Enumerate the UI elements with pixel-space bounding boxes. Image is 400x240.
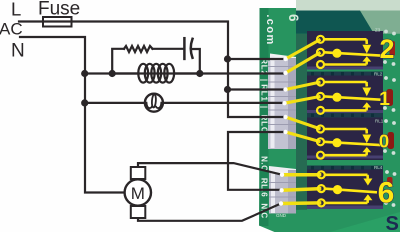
yellow wire T1-R1C1 [286,39,321,59]
pads R3 [384,119,388,123]
diode D1 [390,41,396,56]
junction N-motor branch node B [81,99,88,106]
terminal T4 [282,101,286,105]
PCB top dark band (relay tops in shadow) [296,11,374,34]
yellow wire T5-R3C1 [286,117,321,129]
relay R3 pin strip [307,113,383,118]
PCB pale washed top strip [296,0,400,11]
wire V1 dot1 to T1 [228,58,286,60]
junction RC network left node C [109,70,116,77]
resistor R branch riser [112,49,124,74]
top connector left highlight [271,56,275,148]
relay R4 pin strip [307,166,383,170]
bottom connector right shade [288,170,296,214]
terminal B2 [279,188,283,192]
bottom terminal connector body [269,173,296,214]
svg-text:|: | [259,106,268,108]
svg-text:2: 2 [379,34,394,64]
terminal T1 [283,57,287,61]
yellow wire T3-R2C1 [286,82,321,90]
diode D2 [387,89,394,106]
svg-text:SP: SP [386,213,400,232]
capacitor C1 right curved plate [191,39,193,58]
wire motor top to B1 [138,163,282,175]
svg-text:|: | [259,79,268,81]
terminal T3 [283,87,287,91]
wire resistor to capacitor [153,48,184,50]
relay switch symbol R2 [317,79,381,114]
lamp LP1 [145,94,163,112]
svg-text:6: 6 [286,14,301,22]
svg-text:1: 1 [379,88,390,110]
terminal B1 [280,173,284,177]
svg-text:RL2: RL2 [374,72,383,77]
tiny relay refs [374,72,384,171]
junction L-line branch node F [224,86,231,93]
yellow wire T6-R3C2 [286,132,321,142]
connector labels RL2 RL1 RLC [259,58,268,218]
diode D4 [387,177,393,187]
diode D3 [388,132,395,149]
svg-text:6: 6 [378,177,395,210]
svg-text:RL4: RL4 [374,165,383,170]
bottom connector cell lines [269,183,296,198]
top terminal connector white face [270,54,296,62]
yellow wire B1-R4C1 [282,173,321,177]
yellow wire B3-R4C3 [281,201,321,205]
capacitor C1 left plate [183,38,186,59]
wire capacitor to network node [193,49,200,74]
junction RC network right node D [196,70,203,77]
relay switch symbol R3 [317,126,381,159]
svg-text:RL1: RL1 [375,119,384,124]
yellow wire T4-R2C2 [285,96,321,103]
bottom terminal connector white face [269,166,296,174]
wire lamp row (N branch to PCB T4) [85,102,285,104]
svg-text:Fuse: Fuse [38,0,80,19]
top connector cell lines [268,67,296,125]
pads R4 [385,170,389,174]
svg-text:.com: .com [264,14,276,45]
relay switch symbol R4 [318,171,377,206]
svg-text:AC: AC [0,20,23,39]
svg-text:GND: GND [276,213,287,218]
wire T6 to B2 link [228,132,286,190]
svg-text:N: N [11,41,25,62]
wire fuse internal [43,20,72,22]
wire L to fuse [19,20,43,22]
shadow column left of relays [296,34,307,210]
bottom connector left highlight [271,168,275,213]
svg-text:M: M [131,184,145,203]
svg-text:L: L [11,0,21,20]
top connector right shade [288,58,296,149]
fuse F1 body [43,17,72,27]
PCB bottom-right brighter green [330,212,400,232]
terminal T5 [283,115,287,119]
PCB top-right sage area [360,11,400,34]
pads R2 [384,76,388,80]
right side diodes and pads [383,30,396,207]
terminal B3 [279,201,283,205]
resistor R1 zigzag [124,46,153,52]
inductor L1 coil [112,64,200,83]
terminal T6 [283,130,287,134]
relay R2 pin strip [307,72,383,77]
PCB label column shade [260,8,269,226]
PCB board base [259,0,400,232]
junction N-lamp branch node A [81,70,88,77]
svg-text:Z3: Z3 [375,28,381,33]
relay R2 body [307,76,383,114]
relay switch symbol R1 [317,36,381,68]
yellow wire B2-R4C2 [282,189,322,191]
relay R3 body [307,118,383,161]
top terminal connector body [268,61,296,150]
wire fuse to V1 corner [72,22,286,118]
terminal T2 [283,71,287,75]
junction L-line branch node E [224,55,231,62]
wire N down and to motor [20,37,125,193]
wire V1 dot2 to T3 [227,88,286,90]
wire network row (N branch to PCB T2) [85,72,286,74]
svg-text:RL.6: RL.6 [259,178,268,197]
motor M circle [125,179,151,205]
yellow wire T2-R1C2 [286,52,321,73]
motor M brushes [131,167,146,179]
svg-text:RL1: RL1 [259,84,268,102]
svg-text:0: 0 [379,131,389,152]
relay body edge highlights [307,67,383,210]
relay R1 body [307,31,383,70]
wire motor bottom to B3 [138,204,281,221]
pads R1 [384,30,388,34]
relay R4 body [307,170,383,210]
relay pin strip ticks [311,72,374,170]
